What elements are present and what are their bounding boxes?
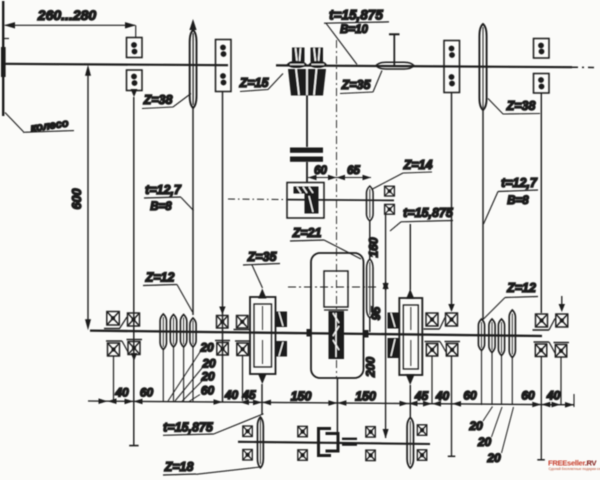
- svg-text:Z=35: Z=35: [341, 78, 372, 92]
- label t=12,7 B=8 (left chain): [144, 183, 194, 213]
- svg-text:t=12,7: t=12,7: [145, 183, 182, 197]
- belt pulley pair on vertical shaft: [290, 95, 323, 183]
- svg-text:Сделай бесплатные подарки себе: Сделай бесплатные подарки себе и друзьям: [549, 467, 600, 471]
- central gearbox housing (rounded): [307, 253, 369, 378]
- gear Z=35 (horizontal spindle on shaft I): [376, 62, 414, 69]
- svg-text:t=12,7: t=12,7: [501, 176, 538, 190]
- wire x=369.8 (gear shaft): [369, 221, 371, 259]
- svg-text:20: 20: [477, 435, 492, 449]
- label колесо: [5, 113, 74, 135]
- svg-text:45: 45: [414, 389, 429, 403]
- gear Z=14 (vertical spindle G4): [367, 186, 374, 221]
- spindle S1: [160, 314, 166, 350]
- svg-text:Z=14: Z=14: [403, 158, 433, 172]
- bearing shaft III x=302: [298, 426, 308, 460]
- svg-text:60: 60: [201, 384, 215, 398]
- gear spindle G5 (below Z=14): [367, 259, 373, 318]
- bearing shaft II below x=242: [235, 341, 250, 401]
- svg-text:B=8: B=8: [507, 195, 529, 207]
- svg-text:45: 45: [241, 388, 256, 402]
- bearing shaft II below x=432: [425, 342, 441, 405]
- svg-text:t=15,875: t=15,875: [403, 206, 454, 220]
- spindle S3: [180, 315, 186, 348]
- svg-text:65: 65: [347, 165, 360, 177]
- bearing shaft II above x=133: [120, 313, 140, 329]
- watermark FREEseller.RV: [548, 459, 600, 471]
- label Z=12 left: [143, 271, 193, 313]
- svg-text:40: 40: [224, 388, 239, 402]
- svg-text:Z=35: Z=35: [247, 250, 278, 264]
- centerline horizontal y=287: [288, 286, 378, 288]
- svg-text:Z=21: Z=21: [292, 226, 322, 240]
- bearing shaft III x=422: [417, 425, 427, 461]
- svg-text:Z=12: Z=12: [145, 271, 175, 285]
- label t=15,875 (bottom left): [163, 414, 264, 436]
- wire x=262 (housing to bottom spindle): [261, 384, 263, 415]
- wire chain line x=193 down: [192, 108, 194, 315]
- bearing shaft II below x=113: [106, 341, 122, 401]
- spindle S1r: [478, 319, 484, 351]
- label Z=14: [372, 158, 433, 190]
- label Z=35 (lower left): [243, 250, 280, 288]
- label Z=38 right: [488, 99, 540, 115]
- bearing shaft II below x=222: [215, 341, 230, 356]
- bearing shaft II below x=561: [549, 342, 569, 405]
- dimension line 160/95/200 (x=385.6): [364, 213, 389, 439]
- bearing shaft II above x=541: [533, 314, 550, 330]
- gear spindle (bottom right, x=410): [407, 418, 413, 469]
- label Z=18: [163, 460, 262, 475]
- gear cluster left on shaft II (4 spindles Z=12): [160, 314, 196, 401]
- bearing B4 (x=541): [534, 39, 550, 94]
- svg-text:t=15,875: t=15,875: [163, 421, 214, 435]
- svg-text:Z=15: Z=15: [239, 76, 270, 90]
- dimension labels bottom row: [114, 386, 560, 404]
- label t=15,875 (middle): [390, 206, 454, 231]
- bearing shaft III x=370: [366, 427, 376, 461]
- bearing B2 (x=223): [216, 40, 232, 92]
- svg-text:20: 20: [468, 419, 483, 433]
- svg-text:Z=38: Z=38: [143, 93, 173, 107]
- svg-text:20: 20: [199, 341, 214, 355]
- bearing shaft II above x=242: [234, 316, 250, 330]
- bearing B3 (x=451): [444, 41, 460, 93]
- bearing shaft II above x=451: [440, 313, 458, 329]
- label Z=38 left: [142, 93, 191, 109]
- svg-text:t=15,875: t=15,875: [329, 8, 383, 23]
- svg-text:95: 95: [369, 307, 383, 321]
- gear Z=38 right (vertical spindle G2): [479, 24, 486, 110]
- svg-text:150: 150: [355, 390, 376, 404]
- bearing shaft II below x=452: [440, 342, 460, 357]
- label Z=21: [290, 226, 361, 259]
- svg-text:B=10: B=10: [340, 24, 368, 36]
- left gear block housing (x=262): [250, 289, 287, 385]
- svg-text:B=8: B=8: [150, 201, 172, 213]
- bottom dimension chain line: [88, 394, 574, 408]
- spindle S4: [190, 318, 196, 347]
- bearing shaft II above x=111: [104, 312, 120, 329]
- svg-text:40: 40: [114, 386, 129, 400]
- wire x=369.8 to shaft II: [369, 318, 371, 332]
- gear Z=38 left (vertical spindle G1): [189, 19, 196, 108]
- dimension 60 / 65: [308, 165, 371, 180]
- gear cluster right on shaft II (4 spindles Z=12): [478, 310, 515, 405]
- svg-text:40: 40: [435, 389, 450, 403]
- shaft I (top main shaft): [2, 64, 598, 68]
- bearing glyphs above shaft II: [104, 296, 568, 330]
- bearing glyphs below shaft II: [106, 340, 569, 406]
- svg-text:150: 150: [291, 390, 312, 404]
- bearing shaft II below x=541: [534, 342, 550, 357]
- bearing on shaft IV (x=389.5): [385, 186, 395, 214]
- svg-text:200: 200: [364, 357, 378, 378]
- svg-text:60: 60: [140, 386, 154, 400]
- worm gearbox (upper middle box): [287, 183, 324, 219]
- right gear block housing (x=410): [388, 224, 423, 385]
- svg-text:160: 160: [367, 237, 381, 257]
- wire x=541.3 below shaft II: [537, 357, 545, 460]
- wire line x=451.5 down: [448, 93, 454, 313]
- wire x=410.3 (housing to bottom spindle): [409, 385, 411, 418]
- dimension 600 vertical: [70, 65, 91, 330]
- spindle S3r: [498, 319, 504, 356]
- shaft III (bottom shaft): [238, 442, 430, 444]
- label t=15,875 B=10 (top): [324, 8, 389, 65]
- bearing shaft II below x=134: [122, 340, 142, 362]
- svg-text:Z=38: Z=38: [506, 99, 536, 113]
- label Z=35 (top): [340, 71, 382, 94]
- svg-text:Z=12: Z=12: [506, 281, 536, 295]
- bearing shaft II above x=561: [549, 296, 568, 330]
- stack 20/20/20/60 labels (left): [168, 341, 216, 402]
- wire x=337.4 (housing to bottom shaft): [336, 378, 338, 442]
- svg-text:60: 60: [521, 389, 535, 403]
- bearing shaft III x=247 (above/below): [243, 426, 253, 460]
- shaft IV (middle stub shaft): [228, 199, 394, 200]
- dog clutch coupling on shaft III: [319, 429, 358, 456]
- label t=12,7 B=8 (right chain): [484, 176, 539, 224]
- wire line x=222.5 down: [222, 92, 224, 402]
- svg-text:60: 60: [463, 389, 477, 403]
- svg-text:20: 20: [486, 451, 501, 465]
- lever / T handle on shaft I: [389, 34, 400, 66]
- gear Z=18 spindle (bottom left): [258, 417, 264, 468]
- wheel (колесо) vertical line: [1, 1, 9, 116]
- svg-text:600: 600: [70, 189, 84, 210]
- bearing shaft II above x=222: [217, 307, 229, 329]
- bearing B1 (top left, x=134): [127, 38, 143, 98]
- shaft II (lower main shaft): [90, 331, 542, 336]
- dimension 260...280: [4, 7, 136, 38]
- svg-text:40: 40: [546, 389, 561, 403]
- wire x=451.5 below shaft II: [448, 356, 456, 456]
- centerline vertical (dash-dot) x=336.5: [336, 40, 338, 378]
- spindle S2: [170, 315, 176, 348]
- svg-text:20: 20: [200, 370, 215, 384]
- stack 20/20/20 labels (right): [468, 407, 513, 466]
- wire chain line x=134 down: [129, 97, 138, 446]
- label Z=12 right: [483, 281, 539, 320]
- wire chain line x=483 down: [482, 110, 484, 319]
- svg-text:20: 20: [201, 357, 216, 371]
- label Z=15: [239, 74, 283, 92]
- spindle S4r: [509, 310, 515, 358]
- gear cluster on shaft I (center): [288, 48, 327, 96]
- spindle S2r: [489, 319, 495, 353]
- svg-text:260...280: 260...280: [37, 7, 97, 23]
- wire line x=541 down: [540, 93, 542, 313]
- svg-text:Z=18: Z=18: [164, 460, 194, 474]
- bearing shaft II above x=431: [424, 313, 440, 329]
